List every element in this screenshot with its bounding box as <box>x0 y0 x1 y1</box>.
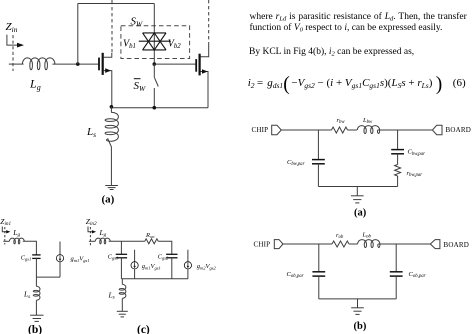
node M1 source <box>110 105 114 109</box>
svg-text:Cob,par: Cob,par <box>287 271 304 279</box>
resistor Ron <box>145 239 158 244</box>
svg-text:(c): (c) <box>137 324 150 334</box>
wire input b <box>3 240 9 242</box>
transistor M1 <box>99 53 112 106</box>
wire left branch c <box>120 241 122 254</box>
wire input <box>9 63 24 65</box>
wire cap to resistor <box>397 154 399 165</box>
svg-text:Zin: Zin <box>6 21 18 34</box>
port BOARD b <box>430 240 440 249</box>
wire bottom (c) <box>121 278 187 280</box>
wire Lg to corner b <box>23 241 37 255</box>
port CHIP b <box>274 240 283 249</box>
wire Lg to gate <box>52 63 99 65</box>
svg-text:−Vgs2 − (i + Vgs1Cgs1s)(LSs +: −Vgs2 − (i + Vgs1Cgs1s)(LSs + rLs) <box>291 77 432 90</box>
port CHIP <box>272 125 282 134</box>
wire stub above rail <box>111 0 113 4</box>
svg-text:rob: rob <box>336 232 344 240</box>
inductor Lg <box>22 58 55 70</box>
svg-text:i2: i2 <box>248 77 255 90</box>
svg-text:Lob: Lob <box>362 231 372 239</box>
equation (6) <box>248 74 466 95</box>
wire Cgs2 to bottom c <box>171 258 173 279</box>
svg-text:Zin1: Zin1 <box>0 217 11 227</box>
current source gm1Vgs1 c stub <box>134 250 136 262</box>
svg-text:(b): (b) <box>354 321 367 332</box>
wire r to L <box>348 129 358 131</box>
wire bottom rail <box>111 107 208 109</box>
svg-text:Zin2: Zin2 <box>86 217 97 227</box>
varactor Vb1 Vb2 <box>139 33 171 50</box>
svg-text:Lbw: Lbw <box>362 117 373 125</box>
transistor M2 <box>196 44 209 108</box>
ground bottom-left c <box>117 311 128 317</box>
capacitor Cob,par right <box>390 271 403 273</box>
svg-text:Vb1: Vb1 <box>123 38 136 50</box>
node gate M1 <box>76 62 80 66</box>
wire right branch down <box>397 130 399 150</box>
wire Lg to Ron c <box>109 240 145 242</box>
svg-text:CHIP: CHIP <box>254 241 271 249</box>
wire Ron to right corner c <box>158 241 172 254</box>
wire bottom (a) <box>318 186 397 188</box>
svg-text:Lg: Lg <box>12 228 20 238</box>
dashed drain line M2 <box>208 0 210 44</box>
wire left branch lower <box>317 164 319 187</box>
svg-text:gm2Vgs2: gm2Vgs2 <box>197 263 217 270</box>
Zin2 dashed line <box>89 227 91 246</box>
svg-text:CHIP: CHIP <box>252 126 269 134</box>
svg-text:Vb2: Vb2 <box>168 38 182 50</box>
wire Ls to ground c <box>121 298 123 311</box>
current source gm1Vgs1 b stub <box>59 242 61 255</box>
inductor Ls b <box>33 286 40 300</box>
svg-text:Ls: Ls <box>23 290 30 300</box>
current source gm1Vgs1 b <box>56 255 63 262</box>
wire right lower b <box>395 276 397 299</box>
svg-text:rbw: rbw <box>337 117 346 125</box>
ground right (b) <box>351 299 364 315</box>
inductor Ls <box>105 107 118 148</box>
wire top (b) <box>283 243 332 245</box>
capacitor Cbw,par right <box>391 149 404 151</box>
svg-text:where rLd is parasitic resista: where rLd is parasitic resistance of Ld.… <box>250 11 468 23</box>
wire down to Ls b <box>35 277 37 286</box>
svg-text:(: ( <box>283 74 290 95</box>
svg-text:(6): (6) <box>453 77 466 89</box>
Zin reference arrow <box>7 35 18 46</box>
svg-text:Ls: Ls <box>108 290 115 300</box>
wire source2 to bottom c <box>187 269 189 279</box>
capacitor Cgs1 b <box>32 254 40 256</box>
current source gm1Vgs1 c <box>131 262 138 269</box>
svg-text:): ) <box>436 74 443 95</box>
Zin1 dashed line <box>4 227 6 245</box>
svg-text:Cbw,par: Cbw,par <box>408 149 426 157</box>
wire bottom (b) <box>319 298 396 300</box>
capacitor Cob,par left <box>312 271 325 273</box>
wire input c <box>89 240 95 242</box>
wire bottom b <box>36 276 60 278</box>
wire left branch b <box>318 244 320 272</box>
inductor Lbw <box>357 126 379 134</box>
port BOARD <box>432 125 442 134</box>
capacitor Cgs1 c <box>116 253 127 255</box>
svg-text:Ron: Ron <box>145 232 155 239</box>
node varactor out <box>153 62 157 66</box>
inductor Ls c <box>119 284 126 298</box>
wire Ls to ground <box>110 148 112 186</box>
Zin1 reference arrow <box>2 227 7 232</box>
svg-text:=: = <box>257 77 263 89</box>
wire resistor to bottom <box>397 176 399 187</box>
wire source1 to bottom c <box>134 269 136 279</box>
wire source to bottom b <box>59 262 61 277</box>
wire L to BOARD b <box>378 243 430 245</box>
dashed drain line M1 <box>111 7 113 53</box>
current source gm2Vgs2 c stub <box>187 250 189 262</box>
switch Sw-bar <box>154 64 158 108</box>
ground (a) <box>105 186 118 190</box>
Zin2 reference arrow <box>88 227 93 232</box>
wire down to Ls c <box>121 279 123 285</box>
svg-text:SW: SW <box>134 80 147 93</box>
wire right branch b <box>395 244 397 272</box>
resistor rob <box>332 241 349 247</box>
wire gate node to top rail <box>77 4 79 65</box>
wire r to L b <box>349 243 358 245</box>
wire Ls to ground b <box>35 300 37 315</box>
svg-text:(a): (a) <box>354 208 367 219</box>
inductor Lg b <box>9 238 24 244</box>
svg-text:(a): (a) <box>102 194 115 206</box>
wire varactor vertical <box>153 4 155 65</box>
wire left branch down <box>317 130 319 160</box>
svg-text:SW: SW <box>131 16 144 29</box>
ground bottom-left b <box>30 315 43 321</box>
wire L to BOARD <box>378 129 433 131</box>
wire top (a) <box>281 129 331 131</box>
wire cap to bottom b <box>35 258 37 277</box>
svg-text:Ls: Ls <box>86 126 96 139</box>
dashed box Sw network <box>121 26 190 59</box>
Zin dashed reference line <box>12 35 14 71</box>
svg-text:function of V0 respect to i, c: function of V0 respect to i, can be expr… <box>250 22 443 34</box>
resistor rbw <box>332 127 348 133</box>
svg-text:Cob,par: Cob,par <box>409 271 426 279</box>
current source gm2Vgs2 c <box>184 262 191 269</box>
wire left lower b <box>318 276 320 299</box>
svg-text:rbw,par: rbw,par <box>407 170 423 178</box>
wire node to M2 gate <box>154 63 196 65</box>
svg-text:gm1Vgs1: gm1Vgs1 <box>142 263 161 270</box>
svg-text:Cbw,par: Cbw,par <box>287 159 305 167</box>
svg-text:BOARD: BOARD <box>444 241 470 249</box>
wire top rail <box>78 3 155 5</box>
svg-text:BOARD: BOARD <box>446 126 472 134</box>
svg-text:gm1Vgs1: gm1Vgs1 <box>71 256 90 263</box>
resistor rbw,par <box>395 165 401 177</box>
svg-text:Cgs1: Cgs1 <box>21 254 31 261</box>
capacitor Cgs2 c <box>166 253 177 255</box>
svg-text:By KCL in Fig 4(b), i2 can be: By KCL in Fig 4(b), i2 can be expressed … <box>249 46 414 58</box>
svg-text:Lg: Lg <box>29 77 41 93</box>
svg-text:gds1: gds1 <box>267 77 283 90</box>
capacitor Cbw,par left <box>312 159 325 161</box>
svg-text:(b): (b) <box>28 324 42 334</box>
wire Cgs1 to bottom c <box>120 258 122 279</box>
node switch bottom <box>153 106 157 110</box>
inductor Lob <box>358 240 380 248</box>
ground right (a) <box>351 187 364 203</box>
svg-text:Lg: Lg <box>99 228 107 238</box>
inductor Lg c <box>95 238 110 244</box>
